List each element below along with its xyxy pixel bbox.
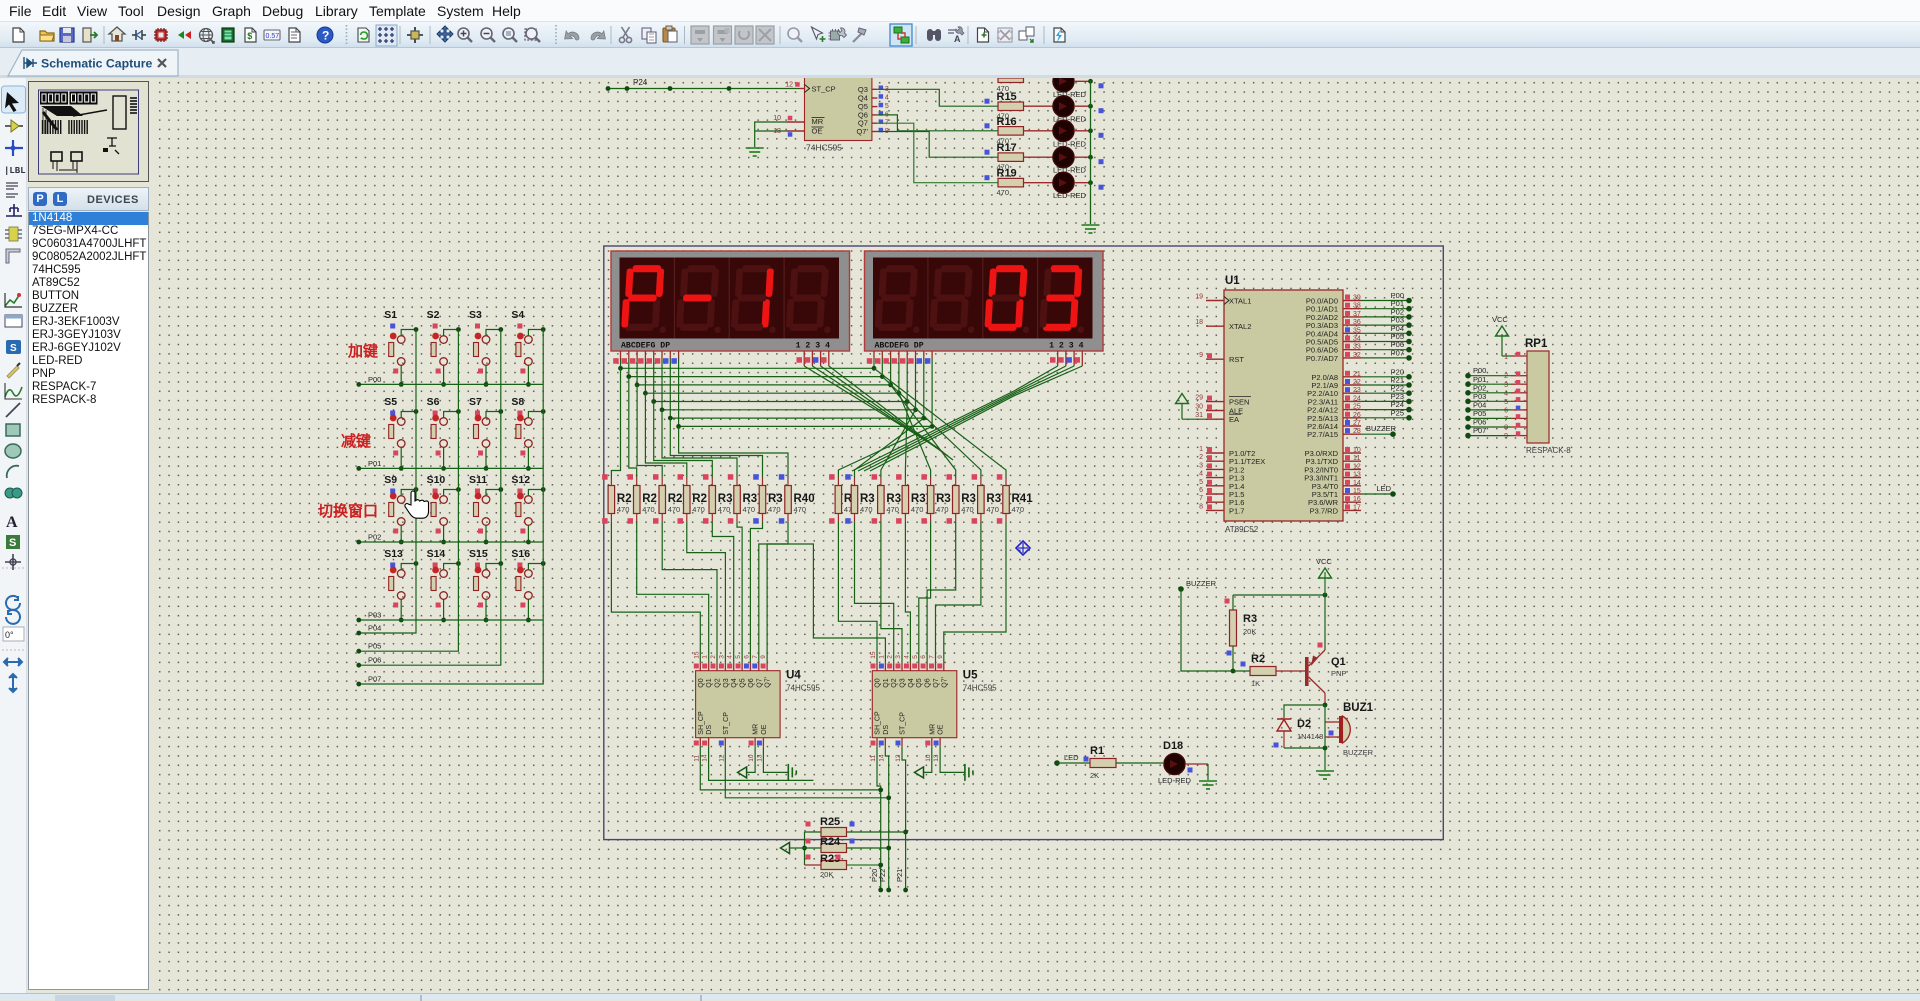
svg-text:P06: P06 <box>368 656 381 665</box>
button S1 <box>384 309 418 387</box>
resistor R39 <box>972 474 1002 524</box>
svg-text:Q1: Q1 <box>883 678 890 687</box>
svg-text:23: 23 <box>1353 387 1361 394</box>
svg-text:ST_CP: ST_CP <box>723 712 730 735</box>
svg-text:31: 31 <box>1195 412 1203 419</box>
svg-text:DS: DS <box>883 725 890 735</box>
ground D18 <box>1199 781 1217 789</box>
buzzer BUZ1 <box>1325 702 1374 770</box>
svg-text:LED: LED <box>1064 753 1079 762</box>
svg-text:16: 16 <box>1353 496 1361 503</box>
terminal U4 MR <box>738 746 756 778</box>
svg-text:MR: MR <box>753 724 760 735</box>
shift register U4 74HC595 <box>693 651 820 762</box>
ground LED rail <box>1082 225 1100 233</box>
svg-text:P2.7/A15: P2.7/A15 <box>1307 430 1338 439</box>
svg-text:P22: P22 <box>878 869 887 882</box>
svg-text:R3: R3 <box>743 493 758 505</box>
svg-text:35: 35 <box>1353 327 1361 334</box>
svg-text:14: 14 <box>702 754 709 762</box>
svg-text:S14: S14 <box>427 548 446 560</box>
svg-text:8: 8 <box>1199 503 1203 510</box>
wire D18 to ground <box>1207 764 1209 780</box>
svg-text:MR: MR <box>929 724 936 735</box>
svg-text:74HC595: 74HC595 <box>963 684 997 693</box>
wire column P06 <box>356 330 500 668</box>
wire left resistors to U4 <box>611 522 788 662</box>
resistor R32 <box>753 474 783 524</box>
wire U5 DS vertical P22 <box>885 746 891 892</box>
svg-text:R41: R41 <box>1012 493 1034 505</box>
svg-text:S8: S8 <box>511 396 524 408</box>
svg-text:20K: 20K <box>1243 627 1256 636</box>
svg-text:DS: DS <box>706 725 713 735</box>
svg-text:13: 13 <box>756 754 763 762</box>
svg-text:Q0: Q0 <box>698 678 705 687</box>
svg-text:470: 470 <box>794 505 807 514</box>
led LED-RED D <box>1053 71 1104 99</box>
svg-text:4: 4 <box>727 655 734 659</box>
wire row P00 <box>356 375 543 387</box>
svg-text:BUZZER: BUZZER <box>1186 579 1217 588</box>
svg-text:470: 470 <box>768 505 781 514</box>
wire RP1 net P03 <box>1465 392 1511 404</box>
svg-text:R3: R3 <box>961 493 976 505</box>
svg-text:Schematic Capture: Schematic Capture <box>41 57 153 71</box>
net label P20 <box>870 869 879 882</box>
wire U5 ST_CP vertical P21 <box>902 746 908 892</box>
svg-text:S9: S9 <box>384 474 397 486</box>
svg-text:3: 3 <box>718 655 725 659</box>
resistor R36 <box>896 474 926 524</box>
mouse cursor <box>405 491 429 518</box>
resistor R15 <box>985 91 1054 121</box>
svg-text:15: 15 <box>870 651 877 659</box>
wire VCC rail buzzer <box>1233 593 1327 598</box>
wire net P06 <box>1361 340 1412 352</box>
svg-text:A: A <box>954 34 961 44</box>
resistor R2 <box>1233 653 1305 688</box>
svg-text:S: S <box>9 537 16 549</box>
svg-text:S1: S1 <box>384 309 397 321</box>
resistor R25 <box>805 816 906 837</box>
svg-text:8: 8 <box>1504 425 1508 432</box>
svg-text:Q3: Q3 <box>858 85 868 94</box>
resistor R38 <box>947 474 976 524</box>
button S10 <box>427 474 461 544</box>
svg-text:5: 5 <box>1199 479 1203 486</box>
wire segment fan to right resistors <box>838 368 1006 477</box>
svg-text:XTAL2: XTAL2 <box>1229 322 1251 331</box>
svg-text:R16: R16 <box>997 116 1017 128</box>
wire Q7 to R19 <box>877 123 998 183</box>
wire DS1 digit select diagonals <box>804 366 953 460</box>
svg-text:470: 470 <box>1012 505 1025 514</box>
svg-text:VCC: VCC <box>1316 557 1332 566</box>
svg-text:R40: R40 <box>794 493 815 505</box>
wire net P20 <box>1361 367 1412 379</box>
svg-text:OE: OE <box>938 724 945 734</box>
diode D2 1N4148 <box>1274 703 1328 751</box>
resistor R26 <box>602 474 632 524</box>
wire net LED stub <box>1054 753 1090 766</box>
svg-text:P04: P04 <box>368 624 381 633</box>
transistor Q1 PNP <box>1305 595 1346 705</box>
svg-text:R2: R2 <box>1251 653 1265 665</box>
wire net LED at P3.5 <box>1361 484 1396 497</box>
label jia jian (add key) <box>347 342 378 360</box>
wire Q3 to R15 <box>877 89 998 106</box>
svg-text:R2: R2 <box>642 493 657 505</box>
svg-text:470: 470 <box>936 505 949 514</box>
svg-text:S10: S10 <box>427 474 446 486</box>
svg-text:3: 3 <box>1199 462 1203 469</box>
svg-text:BUZZER: BUZZER <box>1366 424 1397 433</box>
svg-text:RP1: RP1 <box>1525 338 1548 350</box>
svg-text:11: 11 <box>693 755 700 762</box>
led LED-RED D <box>1053 96 1104 124</box>
wire RP1 net P05 <box>1465 409 1511 421</box>
svg-text:S2: S2 <box>427 309 440 321</box>
button S14 <box>427 548 461 622</box>
svg-text:$: $ <box>247 31 252 41</box>
svg-text:9: 9 <box>760 655 767 659</box>
svg-text:OE: OE <box>761 724 768 734</box>
svg-text:P03: P03 <box>368 611 381 620</box>
svg-text:Q3: Q3 <box>723 678 730 687</box>
svg-text:LED-RED: LED-RED <box>1053 191 1087 200</box>
svg-text:?: ? <box>322 29 329 43</box>
svg-text:33: 33 <box>1353 344 1361 351</box>
svg-text:28: 28 <box>1353 428 1361 435</box>
svg-text:0.57: 0.57 <box>266 33 280 40</box>
wire net BUZZER at P2.7 <box>1361 424 1397 437</box>
svg-text:1: 1 <box>1504 354 1508 361</box>
svg-text:P07: P07 <box>1391 348 1404 357</box>
svg-text:RST: RST <box>1229 355 1244 364</box>
svg-text:5: 5 <box>912 655 919 659</box>
svg-text:10: 10 <box>773 115 781 122</box>
svg-text:10: 10 <box>925 754 932 762</box>
svg-text:R25: R25 <box>820 816 840 828</box>
svg-text:R24: R24 <box>820 836 841 848</box>
svg-text:12: 12 <box>785 82 793 89</box>
svg-text:4: 4 <box>1199 471 1203 478</box>
svg-text:P02: P02 <box>368 533 381 542</box>
svg-text:OE: OE <box>812 127 823 136</box>
wire net P25 <box>1361 408 1412 420</box>
wire U4 SH_CP net P20 <box>700 746 880 790</box>
svg-text:470: 470 <box>718 505 731 514</box>
svg-text:ST_CP: ST_CP <box>812 85 836 94</box>
wire RP1 net P02 <box>1465 383 1511 395</box>
svg-text:20K: 20K <box>820 870 833 879</box>
svg-text:P24: P24 <box>633 78 648 87</box>
wire Q7-prime to R17 <box>877 132 998 158</box>
wire DS1 segments to left resistors <box>611 368 788 477</box>
button S15 <box>469 548 503 622</box>
wire R25-R23 left common <box>802 832 807 865</box>
svg-text:25: 25 <box>1353 404 1361 411</box>
svg-text:P1.7: P1.7 <box>1229 506 1244 515</box>
terminal VCC RP1 <box>1492 315 1511 356</box>
svg-text:减键: 减键 <box>341 432 371 450</box>
svg-text:LED: LED <box>1376 484 1391 493</box>
wire net P24 <box>1361 400 1412 412</box>
resistor R27 <box>628 474 657 524</box>
svg-text:U5: U5 <box>963 670 978 682</box>
svg-text:EA: EA <box>1229 415 1239 424</box>
display DS2 7SEG-MPX4-CC <box>865 251 1104 351</box>
svg-text:D18: D18 <box>1163 740 1183 752</box>
svg-text:13: 13 <box>1353 472 1361 479</box>
svg-text:470: 470 <box>961 505 974 514</box>
svg-text:17: 17 <box>1353 504 1361 511</box>
resistor R41 <box>997 474 1033 524</box>
wire net P05 <box>1361 332 1412 344</box>
svg-text:PSEN: PSEN <box>1229 398 1249 407</box>
svg-text:LED-RED: LED-RED <box>1053 139 1087 148</box>
svg-text:470: 470 <box>743 505 756 514</box>
ground U4 OE <box>763 746 796 781</box>
svg-text:470: 470 <box>886 505 899 514</box>
svg-text:AT89C52: AT89C52 <box>1225 525 1259 534</box>
wire DS2 digit select diagonals <box>852 366 1082 471</box>
svg-text:SH_CP: SH_CP <box>875 711 882 735</box>
wire net P07 <box>1361 348 1412 360</box>
svg-text:P01: P01 <box>368 459 381 468</box>
shift register U3 74HC595 <box>773 60 889 153</box>
svg-text:P05: P05 <box>368 642 381 651</box>
svg-text:U4: U4 <box>786 670 801 682</box>
mcu U1 AT89C52 <box>1195 275 1361 534</box>
wire U5 SH_CP vertical P20 <box>877 746 883 892</box>
svg-text:32: 32 <box>1353 352 1361 359</box>
button S7 <box>469 396 503 471</box>
wire RP1 net P04 <box>1465 400 1511 412</box>
svg-text:1: 1 <box>702 655 709 659</box>
svg-text:470: 470 <box>642 505 655 514</box>
svg-text:R2: R2 <box>617 493 632 505</box>
wire net P04 <box>1361 324 1412 336</box>
svg-text:Q1: Q1 <box>706 678 713 687</box>
svg-text:11: 11 <box>870 755 877 762</box>
wire U4 ST_CP net P22 <box>725 746 888 798</box>
svg-text:19: 19 <box>1195 294 1203 301</box>
svg-text:13: 13 <box>933 754 940 762</box>
svg-text:7: 7 <box>1504 416 1508 423</box>
led LED-RED D <box>1053 120 1104 148</box>
svg-text:10: 10 <box>1353 447 1361 454</box>
svg-text:切换窗口: 切换窗口 <box>318 502 378 520</box>
svg-text:34: 34 <box>1353 336 1361 343</box>
button S6 <box>427 396 461 471</box>
wire column P04 <box>356 330 416 636</box>
svg-text:7: 7 <box>752 655 759 659</box>
svg-text:74HC595: 74HC595 <box>806 143 842 153</box>
svg-text:LED-RED: LED-RED <box>1158 776 1192 785</box>
svg-text:R3: R3 <box>886 493 901 505</box>
svg-text:R15: R15 <box>997 91 1017 103</box>
wire row P01 <box>356 459 543 471</box>
svg-text:R17: R17 <box>997 142 1017 154</box>
svg-text:P07: P07 <box>368 675 381 684</box>
wire net P03 <box>1361 316 1412 328</box>
display DS1 7SEG-MPX4-CC <box>611 251 850 351</box>
svg-text:R3: R3 <box>911 493 926 505</box>
svg-text:R2: R2 <box>692 493 707 505</box>
svg-text:Q5: Q5 <box>916 678 923 687</box>
svg-text:S5: S5 <box>384 396 397 408</box>
svg-text:D2: D2 <box>1297 718 1311 730</box>
svg-text:S7: S7 <box>469 396 482 408</box>
svg-text:VCC: VCC <box>1492 315 1508 324</box>
svg-text:PNP: PNP <box>1331 669 1346 678</box>
resistor R30 <box>703 474 733 524</box>
terminal U5 MR <box>915 746 932 778</box>
wire U4 DS cascade <box>709 746 814 780</box>
svg-text:1K: 1K <box>1251 679 1260 688</box>
wire U3 MR OE to ground <box>755 122 787 147</box>
svg-text:15: 15 <box>693 651 700 659</box>
svg-text:2: 2 <box>1504 373 1508 380</box>
svg-text:4: 4 <box>885 95 889 102</box>
terminal VCC buzzer <box>1316 557 1332 595</box>
resistor R40 <box>779 474 815 524</box>
svg-text:Q7: Q7 <box>756 678 763 687</box>
svg-text:7: 7 <box>1199 495 1203 502</box>
svg-text:18: 18 <box>1195 319 1203 326</box>
svg-text:R3: R3 <box>768 493 783 505</box>
svg-text:MR: MR <box>812 117 824 126</box>
svg-text:12: 12 <box>1353 463 1361 470</box>
net label P21 <box>895 869 904 882</box>
terminal arrow R24 <box>781 843 805 854</box>
ground buzzer <box>1316 771 1334 779</box>
svg-text:Q7': Q7' <box>765 677 772 688</box>
resistor R3 <box>1225 595 1258 673</box>
button S8 <box>511 396 545 471</box>
wire U4 Q7' cascade to U5 <box>767 544 885 662</box>
svg-text:2: 2 <box>887 655 894 659</box>
svg-text:3: 3 <box>1504 382 1508 389</box>
svg-text:ABCDEFG DP: ABCDEFG DP <box>621 342 670 351</box>
svg-text:Q4: Q4 <box>908 678 915 687</box>
svg-text:Q3: Q3 <box>900 678 907 687</box>
svg-text:37: 37 <box>1353 311 1361 318</box>
svg-text:ST_CP: ST_CP <box>900 712 907 735</box>
net label P22 <box>878 869 887 882</box>
wire net P01 <box>1361 299 1412 311</box>
display DS2 pins <box>867 351 1083 366</box>
wire net P00 <box>1361 291 1412 303</box>
origin marker <box>1016 541 1030 555</box>
svg-text:5: 5 <box>735 655 742 659</box>
wire net P21 <box>1361 376 1412 388</box>
svg-text:3: 3 <box>895 655 902 659</box>
svg-text:XTAL1: XTAL1 <box>1229 297 1251 306</box>
svg-text:2K: 2K <box>1090 771 1099 780</box>
svg-text:RESPACK-8: RESPACK-8 <box>1526 446 1571 455</box>
wire RP1 net P07 <box>1465 426 1511 438</box>
svg-text:S6: S6 <box>427 396 440 408</box>
svg-text:S4: S4 <box>511 309 524 321</box>
button S12 <box>511 474 545 544</box>
svg-text:S16: S16 <box>511 548 530 560</box>
resistor R1 <box>1090 745 1163 780</box>
wire net P22 <box>1361 384 1412 396</box>
resistor R31 <box>728 474 757 524</box>
svg-text:S: S <box>10 343 17 354</box>
svg-text:U1: U1 <box>1225 275 1240 287</box>
svg-text:BUZZER: BUZZER <box>1343 748 1374 757</box>
button S5 <box>384 396 418 471</box>
resistor R17 <box>985 142 1054 172</box>
wire column P05 <box>356 330 458 654</box>
wire row P03 <box>356 611 543 623</box>
svg-text:Q2: Q2 <box>715 678 722 687</box>
label qiehuan chuangkou (switch window) <box>318 502 378 520</box>
resistor R34 <box>845 474 875 524</box>
sheet border <box>604 246 1444 840</box>
svg-text:14: 14 <box>878 754 885 762</box>
svg-text:P3.7/RD: P3.7/RD <box>1310 506 1339 515</box>
svg-text:R1: R1 <box>1090 745 1104 757</box>
svg-text:Q6: Q6 <box>748 678 755 687</box>
svg-text:R3: R3 <box>860 493 875 505</box>
svg-text:22: 22 <box>1353 379 1361 386</box>
led LED-RED D <box>1053 147 1104 175</box>
svg-text:1 2 3 4: 1 2 3 4 <box>796 342 830 351</box>
display DS1 pins <box>613 351 829 366</box>
svg-text:12: 12 <box>718 754 725 762</box>
button S13 <box>384 548 418 622</box>
svg-text:加键: 加键 <box>347 342 378 360</box>
svg-text:P0.7/AD7: P0.7/AD7 <box>1306 354 1338 363</box>
svg-text:1N4148: 1N4148 <box>1297 732 1323 741</box>
svg-text:470: 470 <box>692 505 705 514</box>
wire P24 net <box>606 78 800 91</box>
svg-text:0°: 0° <box>5 630 14 640</box>
svg-text:38: 38 <box>1353 303 1361 310</box>
svg-text:P00: P00 <box>368 375 381 384</box>
led LED-RED D <box>1053 172 1104 200</box>
svg-text:P07: P07 <box>1473 426 1486 435</box>
svg-text:6: 6 <box>743 655 750 659</box>
svg-text:24: 24 <box>1353 395 1361 402</box>
svg-text:P25: P25 <box>1391 408 1404 417</box>
svg-text:Q7': Q7' <box>941 677 948 688</box>
led D18 LED-RED <box>1158 740 1208 785</box>
wire net P23 <box>1361 392 1412 404</box>
resistor R28 <box>653 474 682 524</box>
resistor R33 <box>829 474 859 524</box>
resistor R16 <box>985 116 1054 146</box>
svg-text:S13: S13 <box>384 548 403 560</box>
svg-text:36: 36 <box>1353 319 1361 326</box>
svg-text:R2: R2 <box>668 493 683 505</box>
svg-text:9: 9 <box>937 655 944 659</box>
svg-text:14: 14 <box>1353 480 1361 487</box>
resistor R19 <box>985 168 1054 198</box>
svg-text:470: 470 <box>860 505 873 514</box>
svg-text:4: 4 <box>903 655 910 659</box>
svg-text:74HC595: 74HC595 <box>786 684 820 693</box>
button S3 <box>469 309 503 387</box>
button S2 <box>427 309 461 387</box>
resistor R35 <box>872 474 902 524</box>
svg-text:470: 470 <box>668 505 681 514</box>
